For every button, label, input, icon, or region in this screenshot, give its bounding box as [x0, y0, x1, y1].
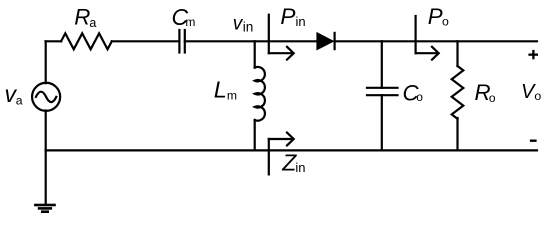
capacitor C2 Co bottom plate: [367, 94, 398, 96]
ground bar 3: [41, 210, 49, 213]
capacitor C2 Co top lead: [381, 41, 383, 88]
wire top rail Ra to Cm: [112, 40, 180, 42]
svg-text:Co: Co: [403, 80, 424, 105]
svg-text:Ra: Ra: [74, 5, 96, 31]
wire left branch source top: [45, 41, 47, 83]
capacitor C1 Cm right plate: [184, 30, 186, 53]
Pin measurement bar: [268, 15, 270, 54]
svg-text:Po: Po: [428, 4, 449, 29]
Zin arrowhead chevron: [287, 133, 294, 146]
resistor R2 Ro top lead: [456, 41, 458, 66]
resistor R2 Ro zigzag: [452, 66, 464, 119]
svg-text:Zin: Zin: [281, 149, 305, 175]
voltage source Va circle: [32, 83, 60, 111]
Po arrowhead chevron: [432, 47, 439, 60]
resistor R1 Ra zigzag: [61, 33, 112, 49]
Po arrow shaft: [416, 52, 438, 54]
Zin measurement bar: [268, 139, 270, 174]
wire left branch source bottom: [45, 111, 47, 151]
wire top rail left segment: [46, 40, 62, 42]
Pin arrow shaft: [269, 52, 293, 54]
wire left branch to ground: [45, 150, 47, 204]
svg-text:vin: vin: [233, 13, 253, 34]
ground bar 1: [34, 204, 56, 207]
inductor Lm bottom lead: [254, 120, 256, 150]
inductor Lm coil: [255, 67, 265, 121]
minus terminal: [530, 140, 537, 142]
svg-text:Vo: Vo: [521, 81, 541, 103]
wire bottom rail: [46, 149, 537, 151]
plus terminal vertical: [532, 50, 534, 59]
ground bar 2: [38, 207, 52, 210]
capacitor C2 Co bottom lead: [381, 95, 383, 150]
wire top rail diode to right end: [335, 40, 538, 42]
diode D1 triangle: [316, 32, 334, 51]
plus terminal horizontal: [528, 54, 538, 56]
Pin arrowhead chevron: [287, 47, 294, 60]
wire top rail Cm to diode: [185, 40, 317, 42]
resistor R2 Ro bottom lead: [456, 118, 458, 150]
capacitor C2 Co top plate: [367, 87, 398, 89]
svg-text:va: va: [5, 81, 23, 107]
diode D1 cathode bar: [334, 32, 336, 50]
svg-text:Lm: Lm: [214, 77, 237, 103]
svg-text:Pin: Pin: [280, 4, 305, 29]
svg-text:Ro: Ro: [475, 80, 496, 105]
capacitor C1 Cm left plate: [178, 30, 180, 53]
Po measurement bar: [415, 16, 417, 53]
voltage source Va sine: [36, 92, 56, 102]
svg-text:Cm: Cm: [172, 4, 196, 30]
inductor Lm top lead: [254, 41, 256, 67]
Zin arrow shaft: [269, 138, 293, 140]
